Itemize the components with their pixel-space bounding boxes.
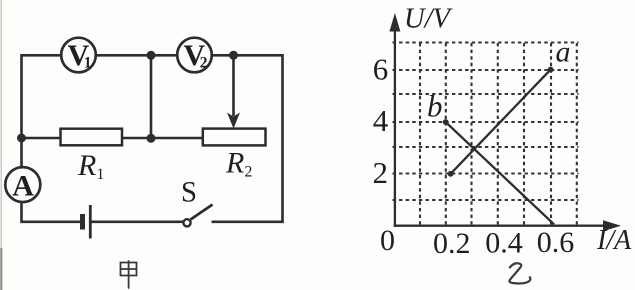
svg-text:0: 0 — [380, 224, 395, 257]
graph y-axis — [394, 28, 396, 227]
svg-text:a: a — [556, 36, 571, 69]
wire switch-to-right — [212, 221, 284, 224]
rheostat R2 — [203, 129, 266, 146]
svg-text:R2: R2 — [225, 147, 252, 181]
caption yi (乙) — [509, 263, 530, 283]
battery negative plate — [80, 214, 85, 230]
voltmeter V1 — [61, 38, 96, 73]
node dot slider-top — [229, 51, 238, 60]
x-axis arrowhead — [603, 220, 621, 231]
svg-text:0.2: 0.2 — [433, 227, 471, 260]
dashed grid horizontals — [393, 43, 579, 201]
node dot mid-mid — [147, 134, 156, 143]
svg-text:0.6: 0.6 — [537, 226, 575, 259]
y-axis arrowhead — [389, 13, 400, 32]
dashed grid verticals — [420, 43, 577, 224]
wire vertical mid node — [150, 55, 153, 138]
wire middle — [22, 137, 203, 140]
svg-text:2: 2 — [200, 55, 208, 72]
wire right — [281, 54, 284, 223]
wire battery-to-switch — [92, 221, 184, 224]
battery positive plate — [89, 205, 92, 239]
wire left — [20, 54, 23, 222]
resistor R1 — [61, 129, 123, 146]
svg-text:I/A: I/A — [596, 225, 632, 256]
svg-text:1: 1 — [84, 55, 92, 72]
scan edge artifact — [0, 0, 2, 290]
line b end dot — [443, 119, 449, 125]
svg-text:4: 4 — [373, 103, 389, 138]
node dot mid-top — [147, 51, 156, 60]
svg-text:b: b — [427, 88, 443, 123]
voltmeter V2 — [177, 38, 212, 73]
wire bottom-left — [20, 221, 80, 224]
line a — [451, 70, 551, 174]
svg-text:2: 2 — [373, 155, 389, 190]
svg-text:S: S — [181, 177, 197, 209]
wire slider — [232, 55, 235, 116]
line b — [446, 122, 554, 224]
svg-text:A: A — [12, 170, 34, 203]
svg-text:6: 6 — [373, 52, 389, 87]
caption jia (甲) — [121, 261, 137, 288]
svg-text:R1: R1 — [77, 149, 104, 183]
wire top — [22, 54, 283, 57]
svg-text:0.4: 0.4 — [485, 227, 523, 260]
svg-text:U/V: U/V — [404, 4, 454, 35]
ammeter A — [5, 167, 40, 202]
graph x-axis — [394, 225, 605, 227]
switch S pivot — [183, 219, 190, 226]
node dot left-mid — [17, 134, 26, 143]
switch S lever — [191, 205, 213, 220]
slider arrowhead — [227, 113, 240, 129]
line a end dots — [448, 171, 454, 177]
